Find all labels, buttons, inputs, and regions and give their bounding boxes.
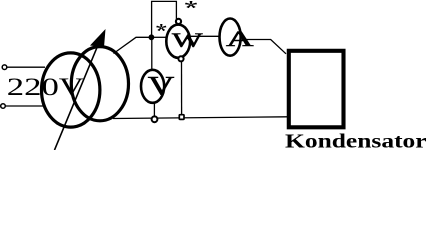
wire from lower-left terminal to transformer [6, 105, 44, 107]
transformer T1 primary winding (left circle) [41, 53, 99, 127]
terminal lower-left [1, 104, 6, 109]
terminal upper-left [2, 65, 7, 70]
wattmeter W bottom terminal [178, 56, 183, 61]
svg-text:Kondensator: Kondensator [285, 129, 427, 150]
wattmeter W body [166, 25, 190, 58]
wire wattmeter to ammeter [190, 35, 219, 37]
ammeter A body [220, 18, 241, 55]
asterisk marker at wattmeter voltage terminal [185, 1, 197, 8]
wire wattmeter bottom down to bottom rail [181, 62, 183, 115]
wire voltmeter down to bottom rail [153, 103, 155, 117]
asterisk marker at wattmeter current terminal [156, 24, 166, 31]
wire from upper-left terminal to transformer [7, 66, 45, 68]
variac adjustment arrow shaft [55, 33, 104, 150]
junction node (solder dot) [149, 34, 155, 40]
svg-text:W: W [172, 28, 203, 50]
transformer T1 secondary winding (right circle) [71, 47, 128, 121]
wire junction to wattmeter left side [151, 36, 167, 38]
wire ammeter to capacitor (with diagonal segment) [242, 40, 286, 54]
wattmeter W top terminal [176, 19, 181, 24]
voltmeter V branch: wire junction down to voltmeter [151, 37, 153, 69]
variac arrow head [90, 29, 106, 47]
wire junction up and over to wattmeter top terminal [152, 1, 177, 37]
svg-text:A: A [226, 26, 254, 50]
bottom rail wire from transformer to capacitor [113, 117, 287, 119]
svg-text:V: V [148, 71, 175, 101]
wattmeter-branch terminal on rail [179, 115, 184, 120]
voltmeter V body [141, 70, 164, 103]
wire transformer top to junction (diagonal) [114, 37, 153, 53]
capacitor box [289, 51, 344, 128]
voltmeter bottom terminal on rail [152, 116, 158, 122]
